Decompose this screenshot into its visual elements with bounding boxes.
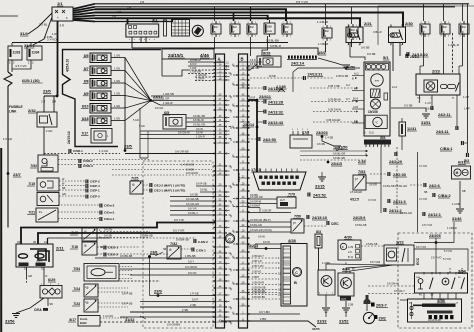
wires right of 2/22 <box>414 248 452 250</box>
svg-text:D:11: D:11 <box>369 132 375 135</box>
svg-text:0.6 VO: 0.6 VO <box>188 271 196 275</box>
link 24/2:52 <box>307 193 309 197</box>
wire 0.6 BN-SB lower <box>95 280 160 282</box>
svg-text:5: 5 <box>219 36 220 38</box>
svg-text:23/205: 23/205 <box>429 234 441 238</box>
wire 3 Y-VO vertical <box>417 152 419 232</box>
fuse 11/33 <box>8 46 22 60</box>
wire 2 SB b <box>130 311 190 313</box>
svg-text:11/: 11/ <box>285 25 289 29</box>
svg-text:23/214: 23/214 <box>243 123 254 127</box>
svg-text:0.35 P: 0.35 P <box>252 276 260 279</box>
svg-text:A 6: A 6 <box>348 251 352 254</box>
svg-text:4/25A:10: 4/25A:10 <box>66 59 70 72</box>
wire taps above fuses <box>11 43 13 46</box>
svg-text:A:4: A:4 <box>346 84 350 87</box>
svg-text:2/32: 2/32 <box>28 108 37 113</box>
svg-text:R: R <box>345 262 347 266</box>
svg-text:x: x <box>139 39 140 41</box>
svg-text:OUT: OUT <box>341 298 347 301</box>
svg-text:3 BL-R: 3 BL-R <box>373 30 382 34</box>
ECC dashed box <box>398 233 472 328</box>
svg-text:3: 3 <box>248 36 249 38</box>
svg-text:1: 1 <box>283 22 284 24</box>
wire 0.8 BL-R to tap 15/2 <box>132 48 318 55</box>
ECU connector strip A <box>216 54 225 328</box>
wire fuse 11/6 down <box>262 36 268 56</box>
svg-text:0.6 W: 0.6 W <box>258 235 265 239</box>
box corner right of 15/2 <box>293 68 360 92</box>
svg-text:0.35 Y-R: 0.35 Y-R <box>252 260 262 263</box>
hatched display <box>371 89 381 98</box>
thick wire 0.6 Y-W to pin 7 <box>21 223 216 245</box>
svg-text:4/11:5: 4/11:5 <box>350 198 359 202</box>
bus wire 5 to ignition <box>95 16 268 21</box>
svg-text:0.6 GR-SB: 0.6 GR-SB <box>246 66 259 70</box>
wire 3 R down from 1/1 <box>57 21 59 96</box>
svg-text:23/5: 23/5 <box>124 144 133 149</box>
svg-text:B:14: B:14 <box>353 98 359 101</box>
link 24/2:6 <box>423 183 425 187</box>
wires to strip A mid <box>140 130 216 132</box>
svg-text:17/13: 17/13 <box>251 168 261 172</box>
svg-text:2 GN: 2 GN <box>46 129 52 133</box>
svg-text:2.5 Y-VO: 2.5 Y-VO <box>422 224 432 227</box>
fuse 11/8 <box>247 24 257 34</box>
tachometer gauge <box>371 74 383 86</box>
injector 8/9 <box>90 91 111 101</box>
svg-text:24/2:6: 24/2:6 <box>429 184 440 188</box>
fuse 11/4 <box>459 24 469 34</box>
right vertical wire to link 24/2:11 <box>443 33 445 74</box>
svg-text:11/: 11/ <box>233 25 237 29</box>
strip A pin rows <box>217 62 225 64</box>
link 24/2:50 <box>257 137 259 141</box>
fusible link zigzag <box>4 72 12 86</box>
svg-text:0.6 OR-SB: 0.6 OR-SB <box>175 150 189 154</box>
wire 0.5 SB cluster to ground 31/51 <box>391 108 426 112</box>
svg-text:31/55: 31/55 <box>312 327 320 331</box>
left nested box edges <box>140 108 148 158</box>
svg-text:0.35 GR: 0.35 GR <box>262 210 272 213</box>
svg-text:0.6 SB: 0.6 SB <box>317 142 325 146</box>
node 23/7 <box>7 172 10 175</box>
svg-text:0.35 GN-W: 0.35 GN-W <box>328 108 342 112</box>
svg-text:23/203: 23/203 <box>316 131 328 135</box>
svg-text:0.6 GN-GR (VO-W): 0.6 GN-GR (VO-W) <box>250 229 272 232</box>
ground 31/52 <box>345 301 347 307</box>
svg-text:1: 1 <box>421 22 422 24</box>
svg-text:1 GR-OR: 1 GR-OR <box>196 74 207 77</box>
svg-text:11/: 11/ <box>443 25 447 29</box>
svg-text:0.6 W: 0.6 W <box>196 131 203 135</box>
svg-text:0.35 BN-W: 0.35 BN-W <box>328 98 341 102</box>
svg-text:W-SB: W-SB <box>269 75 276 78</box>
svg-text:x: x <box>149 39 150 41</box>
svg-text:A 29: A 29 <box>348 246 354 249</box>
svg-text:11/: 11/ <box>423 25 427 29</box>
svg-text:15/2: 15/2 <box>318 50 327 55</box>
svg-text:7/79: 7/79 <box>288 193 295 197</box>
wires 6/5 to strip A <box>186 117 216 119</box>
svg-text:2/21: 2/21 <box>364 21 373 26</box>
svg-text:C/EP-1: C/EP-1 <box>90 189 100 193</box>
svg-text:6/25:1 (30): 6/25:1 (30) <box>22 79 40 83</box>
svg-text:C/EP-4: C/EP-4 <box>90 184 100 188</box>
svg-text:1: 1 <box>460 22 461 24</box>
warning lamp circles <box>366 64 389 71</box>
svg-text:1.4 BL-R: 1.4 BL-R <box>447 227 457 230</box>
svg-text:20/3-7: 20/3-7 <box>376 304 387 308</box>
svg-text:2 R: 2 R <box>41 100 45 104</box>
thick wire 0.6 Y-GR to pin 31 <box>38 233 216 244</box>
svg-text:2 SB: 2 SB <box>348 304 354 307</box>
links C-EN <box>193 239 195 243</box>
svg-text:1 P-SB: 1 P-SB <box>190 292 199 296</box>
svg-text:7/21: 7/21 <box>28 211 35 215</box>
svg-text:2: 2 <box>238 22 239 24</box>
fuel symbol pill <box>384 93 388 100</box>
wires into 7/50 <box>248 221 291 223</box>
svg-text:24/13:43: 24/13:43 <box>268 121 283 125</box>
svg-text:3 R: 3 R <box>60 24 65 28</box>
fuse 11/7 <box>230 24 240 34</box>
svg-text:x: x <box>129 39 130 41</box>
svg-text:0.6 BL-GR: 0.6 BL-GR <box>250 224 262 227</box>
svg-text:C/Em-2: C/Em-2 <box>104 211 115 215</box>
wire 0.6 OR-W <box>120 268 216 270</box>
wire fuse 11/8 down to 8/28 <box>250 37 252 56</box>
svg-text:C/Em-3: C/Em-3 <box>104 204 115 208</box>
svg-text:1.4 GN-SB: 1.4 GN-SB <box>181 163 194 167</box>
svg-text:24/2:14: 24/2:14 <box>291 62 305 66</box>
svg-text:1 R: 1 R <box>52 32 57 36</box>
svg-text:B: B <box>294 280 297 285</box>
svg-text:23/8: 23/8 <box>150 251 157 255</box>
svg-text:11/6: 11/6 <box>267 26 272 29</box>
ground 31/51 <box>422 113 430 115</box>
far right vertical to 5/2 <box>467 4 469 153</box>
wire 1 P-SB <box>158 295 216 297</box>
svg-text:5/4: 5/4 <box>380 135 385 139</box>
svg-text:1.4 GN: 1.4 GN <box>99 149 108 153</box>
svg-text:1: 1 <box>248 22 249 24</box>
svg-text:31/51: 31/51 <box>421 121 431 125</box>
svg-text:1A 2A 3A 2B: 1A 2A 3A 2B <box>428 319 441 322</box>
wire 2 BN bottom <box>221 321 316 327</box>
wire 0.6 Y-BN bottom <box>248 313 301 315</box>
svg-text:C/SD-2: C/SD-2 <box>83 159 93 163</box>
svg-text:1 GN: 1 GN <box>114 104 120 108</box>
svg-text:0.5 SB: 0.5 SB <box>404 104 413 108</box>
injector feed bus vertical <box>124 58 126 151</box>
fuse 11/2 <box>420 24 430 34</box>
svg-text:7/23: 7/23 <box>73 302 80 306</box>
svg-text:2/23: 2/23 <box>432 69 441 74</box>
svg-text:0.6 BL-SB: 0.6 BL-SB <box>333 156 345 160</box>
wires 7/15 to links <box>59 180 86 182</box>
svg-text:11/11: 11/11 <box>267 31 273 33</box>
svg-text:0.6 Y-VO: 0.6 Y-VO <box>416 246 426 249</box>
svg-text:0.35 GN-BN: 0.35 GN-BN <box>252 296 265 299</box>
svg-text:6/31: 6/31 <box>458 161 465 165</box>
ignition aux column <box>164 20 167 36</box>
svg-text:3 Y-VO: 3 Y-VO <box>419 198 427 201</box>
svg-text:8/9: 8/9 <box>84 92 89 96</box>
svg-text:C/EP-3: C/EP-3 <box>90 195 100 199</box>
fuse 11/1 <box>322 28 332 38</box>
svg-text:2 BN: 2 BN <box>260 317 266 321</box>
svg-text:+: + <box>57 16 59 20</box>
cluster connector bar <box>364 140 391 145</box>
svg-text:0.6 BN-SB: 0.6 BN-SB <box>140 234 153 238</box>
svg-text:1: 1 <box>231 22 232 24</box>
svg-text:4 R: 4 R <box>112 14 116 18</box>
wire 0.6 R-SB <box>196 185 216 187</box>
svg-text:0.6 BN-SB: 0.6 BN-SB <box>176 238 189 242</box>
wires below relay 2/30 <box>392 43 394 72</box>
svg-text:24/2:52: 24/2:52 <box>313 194 326 198</box>
svg-text:11/: 11/ <box>325 29 329 33</box>
svg-text:0.5 BL-SB: 0.5 BL-SB <box>355 224 367 227</box>
svg-text:24/2:29: 24/2:29 <box>389 160 402 164</box>
wire 0.6 BL <box>200 191 216 193</box>
svg-text:3 Y-VO: 3 Y-VO <box>368 199 376 202</box>
svg-text:0.6 P: 0.6 P <box>192 298 198 302</box>
3/54 to 3/58 stubs <box>423 293 425 300</box>
svg-text:2: 2 <box>255 22 256 24</box>
svg-text:C/EO-1: C/EO-1 <box>108 246 118 250</box>
svg-text:1 GN: 1 GN <box>114 67 120 71</box>
svg-text:0.6 GN-W: 0.6 GN-W <box>186 171 198 175</box>
svg-text:FL: FL <box>39 210 43 214</box>
wire 0.5 Y-VO below fuses <box>12 60 31 69</box>
relay group outline box <box>377 6 379 45</box>
svg-text:C-EN 1: C-EN 1 <box>196 249 206 253</box>
wire 35 BL from 31/4 to 1/1 <box>28 13 52 34</box>
svg-text:0.6 BL: 0.6 BL <box>200 188 208 192</box>
svg-text:0.6 BL-SB 0.6 BL-GR: 0.6 BL-SB 0.6 BL-GR <box>383 185 407 188</box>
svg-text:2 SB: 2 SB <box>182 308 188 312</box>
svg-text:3.5 BL: 3.5 BL <box>39 23 48 27</box>
svg-text:SB: SB <box>462 189 466 193</box>
sensor 7/15 lower <box>37 193 59 206</box>
svg-text:0.6 BL-R: 0.6 BL-R <box>190 58 201 62</box>
svg-text:1: 1 <box>323 26 324 28</box>
svg-text:2: 2 <box>290 22 291 24</box>
svg-text:A:26: A:26 <box>353 106 359 109</box>
svg-text:8/28: 8/28 <box>263 52 270 56</box>
right vertical to link C/BA:1 <box>462 33 464 66</box>
svg-text:0.35 Y-VO: 0.35 Y-VO <box>252 265 263 268</box>
bus wire 6 thick to relay 2/21 <box>95 18 360 27</box>
link 24/15:10 <box>306 215 308 219</box>
wire into 3/58 left <box>400 299 407 301</box>
svg-text:0.6 BN-GR (BN-P): 0.6 BN-GR (BN-P) <box>250 219 271 222</box>
svg-text:31/15: 31/15 <box>315 185 325 189</box>
svg-text:C/EC: C/EC <box>331 222 339 226</box>
svg-text:1.4 P: 1.4 P <box>463 95 469 99</box>
svg-text:23/7: 23/7 <box>13 172 22 177</box>
feed fan from 1/1 to top bus <box>73 4 95 9</box>
wire 1.4 BN vertical <box>318 248 320 270</box>
svg-text:P: P <box>355 176 358 181</box>
bus wire 3 thick to fuse 11/15 <box>95 9 286 21</box>
svg-text:7/25: 7/25 <box>131 177 138 181</box>
svg-text:11/34: 11/34 <box>32 51 40 55</box>
svg-text:OUT1: OUT1 <box>19 261 26 263</box>
link 24/13:22 <box>406 52 408 56</box>
svg-text:0.6 OR-W: 0.6 OR-W <box>185 265 197 269</box>
svg-text:23/415: 23/415 <box>331 162 342 166</box>
svg-text:23/9: 23/9 <box>154 289 163 294</box>
wire SB to ground 31/46 <box>459 181 461 208</box>
svg-text:C/EO-2: C/EO-2 <box>108 253 118 257</box>
svg-text:0.6 Y: 0.6 Y <box>188 260 194 264</box>
svg-text:5: 5 <box>330 40 331 42</box>
wire 1.4 BL-R fuse 11/1 down <box>325 41 327 52</box>
svg-text:0.35 Y-SB: 0.35 Y-SB <box>328 84 340 88</box>
svg-text:24/15:9: 24/15:9 <box>353 216 365 220</box>
svg-text:1.4 BL-R: 1.4 BL-R <box>448 43 459 47</box>
svg-text:24/12:1: 24/12:1 <box>428 213 441 217</box>
svg-text:1 GR-R: 1 GR-R <box>196 78 205 81</box>
svg-text:5: 5 <box>290 36 291 38</box>
svg-text:C: C <box>342 245 344 249</box>
svg-text:0.6 BN: 0.6 BN <box>186 168 194 172</box>
svg-text:7/50: 7/50 <box>294 215 301 219</box>
svg-text:6/29: 6/29 <box>48 278 55 282</box>
svg-text:0.6 P-SB: 0.6 P-SB <box>122 302 133 306</box>
component 7/17 EVAP valve <box>91 129 112 144</box>
connector 1/1 <box>52 7 73 21</box>
svg-text:SB: SB <box>62 187 66 190</box>
svg-text:0.6 SB: 0.6 SB <box>367 52 376 56</box>
svg-text:0.8 BL-R: 0.8 BL-R <box>270 44 281 48</box>
svg-text:8/5: 8/5 <box>84 54 89 58</box>
distributor 29/2 <box>363 312 374 323</box>
svg-text:C/SD-3: C/SD-3 <box>83 164 93 168</box>
svg-text:1 GR-OR: 1 GR-OR <box>190 70 201 74</box>
svg-text:0.35 GN-R: 0.35 GN-R <box>252 282 264 285</box>
svg-text:1 GN: 1 GN <box>114 79 120 83</box>
bus wire 0.8 Y-VO top <box>95 3 469 5</box>
svg-text:8/18: 8/18 <box>82 117 89 121</box>
svg-text:0.6 Y-GR: 0.6 Y-GR <box>173 229 184 233</box>
svg-text:P: P <box>293 220 296 225</box>
svg-text:1 0.4 GN: 1 0.4 GN <box>103 315 113 318</box>
svg-text:0.6 W: 0.6 W <box>263 240 270 244</box>
dashed box around lower sensors <box>143 161 213 328</box>
svg-text:0.6 Y-W: 0.6 Y-W <box>174 218 184 222</box>
svg-text:C/BA:1: C/BA:1 <box>440 147 453 151</box>
svg-text:5: 5 <box>356 39 357 41</box>
svg-text:0.5 BL-GR: 0.5 BL-GR <box>400 212 412 215</box>
svg-text:0.5 BL-BN: 0.5 BL-BN <box>266 39 279 43</box>
svg-text:RPM: RPM <box>375 80 380 82</box>
svg-text:7/53: 7/53 <box>358 170 365 174</box>
svg-text:7/54: 7/54 <box>73 267 80 271</box>
svg-text:29/2: 29/2 <box>379 317 386 321</box>
svg-text:0.5 Y-VO: 0.5 Y-VO <box>15 64 27 68</box>
link 24/1:2 <box>405 54 407 58</box>
svg-text:C: C <box>228 237 231 241</box>
right vertical wire 1 <box>423 33 425 66</box>
svg-text:24/11:3: 24/11:3 <box>393 200 406 204</box>
svg-text:SB: SB <box>50 303 54 306</box>
svg-text:11/33: 11/33 <box>13 51 21 55</box>
svg-text:0.6 BL-SB: 0.6 BL-SB <box>193 114 205 118</box>
links 24/13 group <box>263 86 265 90</box>
svg-text:3: 3 <box>441 36 442 38</box>
svg-text:0.6 BL-GN: 0.6 BL-GN <box>193 123 205 127</box>
ignition key position grid <box>172 20 190 37</box>
svg-text:0.5 Y-VO: 0.5 Y-VO <box>296 0 309 4</box>
svg-text:AUT: AUT <box>280 199 285 202</box>
wire 1.4 BL-R top right <box>453 222 455 243</box>
svg-text:0.5 R: 0.5 R <box>250 60 256 62</box>
link 24/11:3 <box>387 199 389 203</box>
svg-text:1/1: 1/1 <box>57 1 63 6</box>
svg-text:3: 3 <box>421 36 422 38</box>
wires 7/54 <box>119 266 132 268</box>
wires from ECU header to strip A top <box>188 61 214 63</box>
svg-text:31/46: 31/46 <box>452 217 462 221</box>
svg-text:2/11: 2/11 <box>56 246 64 251</box>
temp gauge box <box>365 115 387 128</box>
svg-text:24/2:5: 24/2:5 <box>237 173 241 182</box>
OBD pin stubs <box>260 169 262 173</box>
strip B top right wires <box>248 61 263 63</box>
svg-text:31/52: 31/52 <box>339 320 349 324</box>
ground 31/46 <box>456 208 464 210</box>
svg-text:23/411: 23/411 <box>259 94 272 99</box>
svg-text:8/8: 8/8 <box>84 79 89 83</box>
node 23/5 <box>124 149 127 152</box>
wire to ground 31/50 right <box>322 137 334 147</box>
svg-text:24/13:28: 24/13:28 <box>268 101 283 105</box>
link 24/2:30 <box>387 172 389 176</box>
svg-text:24/2:50: 24/2:50 <box>263 138 276 142</box>
wire 0.6 VO <box>130 274 216 276</box>
svg-text:24/13:31: 24/13:31 <box>308 73 323 77</box>
svg-text:BL: BL <box>352 267 356 271</box>
svg-text:5: 5 <box>448 36 449 38</box>
svg-text:1: 1 <box>441 22 442 24</box>
svg-text:24/2:11: 24/2:11 <box>438 113 451 117</box>
injector 8/8 <box>90 79 111 89</box>
wire fuse 11/5 down <box>214 37 216 49</box>
svg-text:5 GN: 5 GN <box>139 125 145 128</box>
fuse 11/34 <box>27 46 42 60</box>
svg-text:5/1: 5/1 <box>383 55 389 60</box>
svg-text:5: 5 <box>428 36 429 38</box>
wire 1.5 GR left vertical <box>7 86 9 228</box>
thick feed into ignition <box>127 18 129 24</box>
gauge circle with cross <box>371 99 381 109</box>
svg-text:1 BN-SB: 1 BN-SB <box>185 254 196 258</box>
svg-text:0.6 OR-W: 0.6 OR-W <box>250 201 262 204</box>
svg-text:3 Y-VO: 3 Y-VO <box>47 38 57 42</box>
svg-text:11/: 11/ <box>250 25 254 29</box>
svg-text:0.6 P-SB: 0.6 P-SB <box>122 292 133 296</box>
svg-text:S: S <box>364 131 366 135</box>
bus wire 7 to ignition grid <box>95 20 173 22</box>
svg-text:1 GN: 1 GN <box>114 117 120 121</box>
svg-text:0.6 Y-BN: 0.6 Y-BN <box>259 310 270 314</box>
wires below 2/23 <box>419 95 421 101</box>
svg-text:31/50: 31/50 <box>346 66 355 70</box>
